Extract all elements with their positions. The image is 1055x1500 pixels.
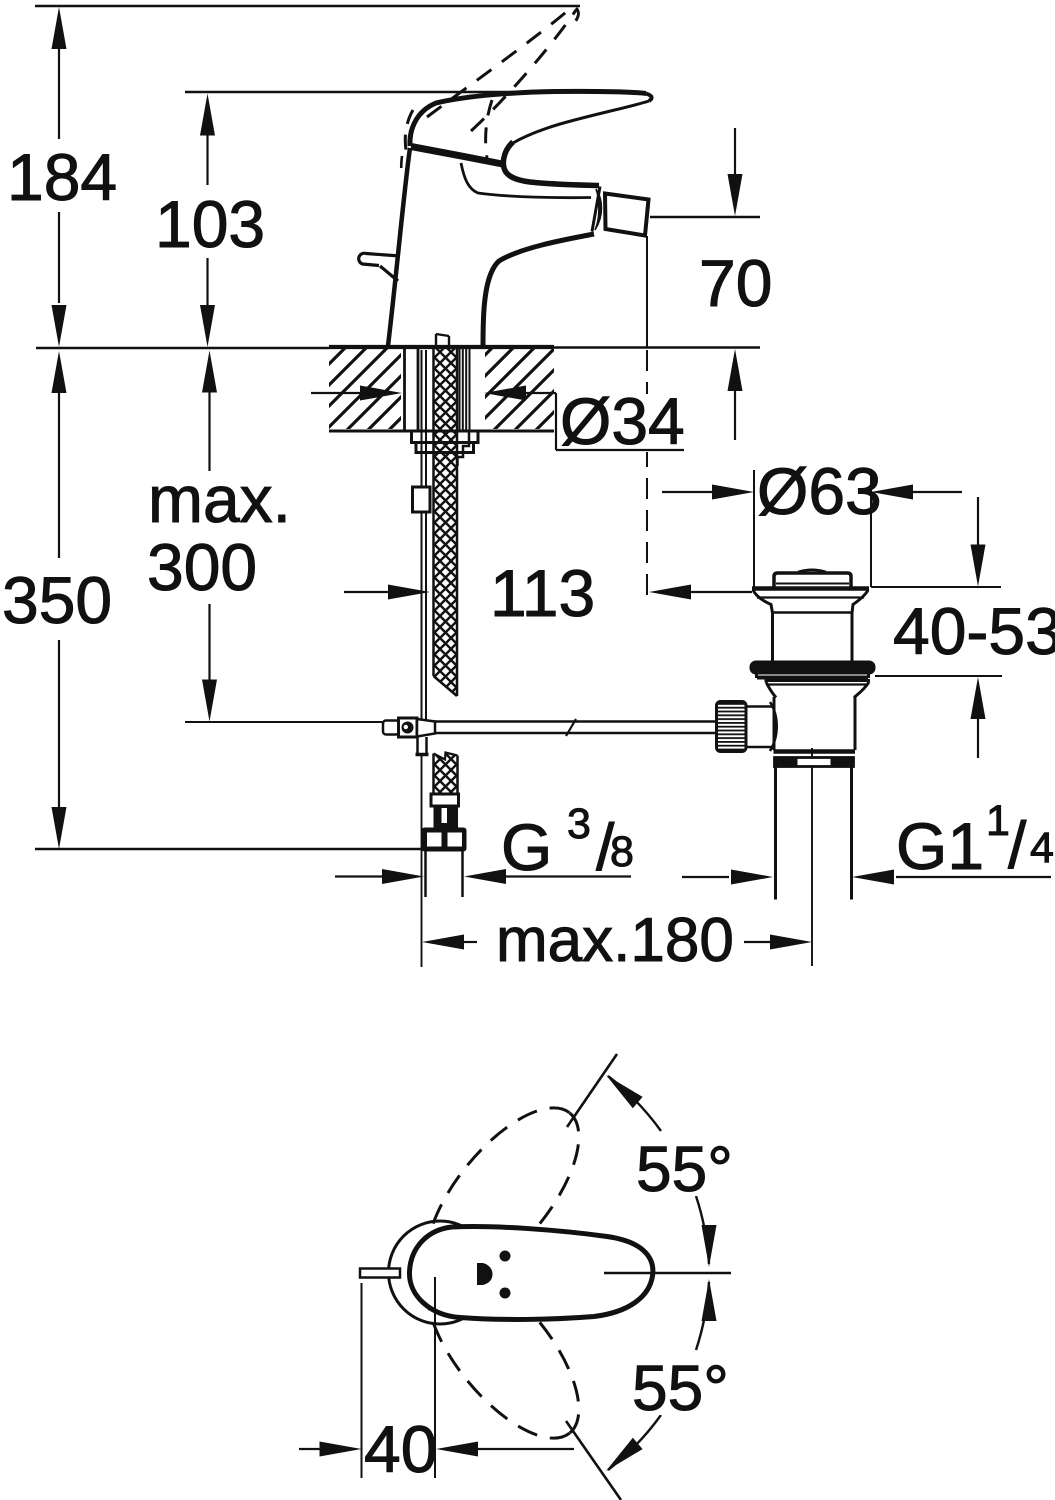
- drain body left wall curve: [770, 702, 777, 751]
- dimension max.300 line: [208, 392, 210, 681]
- dimension 40-53 reference lines: [871, 587, 1002, 676]
- shank locknut tier 2: [416, 443, 474, 453]
- dimension 40 arrows: [299, 1448, 574, 1450]
- radial line 55 upper: [567, 1054, 617, 1127]
- drain seal ring: [750, 661, 876, 675]
- dimension G3/8 arrows: [335, 875, 631, 877]
- rod stub below T-fitting: [416, 737, 429, 755]
- angular arc upper: [696, 1196, 709, 1264]
- svg-text:55°: 55°: [636, 1133, 733, 1205]
- deck hatching right block: [485, 349, 554, 429]
- dimension 40-53 lines: [977, 497, 979, 758]
- drain body sides: [773, 697, 776, 750]
- dimension 70 arrows: [728, 174, 743, 391]
- dimension max.180 extension line left: [421, 756, 423, 967]
- svg-text:1: 1: [986, 797, 1010, 845]
- raised handle (dashed) small arc: [400, 156, 403, 176]
- body left edge: [388, 148, 410, 346]
- svg-text:/: /: [1008, 808, 1027, 882]
- braided supply hose upper segment: [434, 349, 458, 697]
- svg-text:40: 40: [364, 1412, 437, 1486]
- horizontal pop-up rod to drain: [435, 722, 716, 734]
- body cap seam: [461, 163, 591, 198]
- drain adjuster knurled knob: [717, 702, 747, 752]
- svg-text:G1: G1: [896, 809, 984, 883]
- body front edge: [483, 234, 594, 347]
- shank stepped end: [458, 431, 470, 466]
- svg-text:G: G: [501, 810, 552, 884]
- handle logo mark: [477, 1263, 493, 1285]
- supply pipe below nut: [426, 852, 463, 898]
- base cap circle: [389, 1221, 492, 1324]
- dimension 350 arrows: [52, 351, 67, 849]
- pop-up rod (vertical): [422, 350, 427, 719]
- svg-text:Ø63: Ø63: [757, 454, 882, 528]
- svg-text:300: 300: [147, 530, 257, 604]
- drain flange inner lines: [757, 596, 864, 598]
- raised handle (dashed) upper edge: [427, 7, 572, 117]
- tailpiece collar: [775, 758, 854, 767]
- svg-text:113: 113: [490, 556, 595, 630]
- spout outlet crescent: [595, 189, 602, 230]
- T-fitting taper: [417, 719, 435, 737]
- drain flange top: [752, 586, 869, 591]
- pop-up rod T-fitting block: [399, 718, 418, 737]
- svg-text:max.180: max.180: [496, 906, 734, 975]
- drain body bottom: [774, 749, 856, 754]
- dimension 103 line: [206, 134, 208, 306]
- deck top line: [329, 345, 554, 349]
- drain centreline / max.180 extension right: [811, 748, 813, 966]
- reference line at rod end (max.300 bottom): [185, 721, 384, 723]
- dimension O34 label: [556, 384, 685, 458]
- dimension 103 arrows: [200, 94, 215, 348]
- svg-text:55°: 55°: [632, 1352, 729, 1424]
- dimension 40 extension lines: [361, 1283, 363, 1478]
- handle tip cap: [646, 94, 652, 102]
- drain plug knob top: [798, 570, 826, 572]
- raised handle (dashed) hook: [486, 100, 492, 158]
- svg-text:350: 350: [2, 563, 112, 637]
- radial line 55 lower: [566, 1421, 621, 1500]
- drain neck: [771, 613, 774, 661]
- raised handle (dashed) tip: [573, 8, 578, 24]
- dimension max.300 arrows: [202, 351, 217, 722]
- deck top reference extension to 70 dim: [554, 346, 760, 348]
- reference line 103 (handle top level): [185, 91, 548, 93]
- dimension 350 line: [58, 392, 60, 808]
- pop-up knob lever on body: [359, 253, 400, 281]
- shank tube lines in deck hole: [405, 349, 419, 431]
- svg-text:8: 8: [610, 828, 634, 876]
- dimension O34 arrows and leader: [311, 392, 556, 394]
- aerator: [605, 194, 649, 236]
- top reference line (raised handle height): [35, 5, 580, 8]
- dimension 184 arrows: [52, 7, 67, 347]
- svg-text:max.: max.: [148, 462, 291, 536]
- dimension 113 arrows: [344, 591, 752, 593]
- dimension 184 line: [58, 47, 60, 303]
- dimension G1 1/4 arrows: [682, 876, 1051, 878]
- rod break tick: [566, 719, 576, 736]
- handle inner hook: [503, 142, 599, 186]
- handle rotated +55 (dashed ellipse upper): [400, 1084, 606, 1307]
- spout outlet reference line (70 top): [650, 216, 760, 218]
- drain lower flange: [765, 679, 871, 682]
- hose end fitting (dark): [434, 805, 459, 828]
- spout centre projection line (solid above deck): [646, 236, 648, 347]
- label 55 upper: [630, 1133, 733, 1205]
- handle dots: [500, 1251, 511, 1262]
- adjuster neck: [746, 705, 772, 708]
- svg-text:40-53: 40-53: [893, 594, 1055, 668]
- dimension G1 1/4 label: [896, 797, 1054, 883]
- dimension 40-53 arrows: [971, 545, 986, 720]
- dimension G3/8 label: [501, 800, 634, 884]
- dimension O63 arrows: [662, 491, 962, 493]
- deck level reference line (left extension): [36, 347, 329, 349]
- rod connector sleeve: [413, 487, 431, 512]
- handle back and top edge: [410, 91, 646, 146]
- svg-text:70: 70: [699, 246, 772, 320]
- pop-up rod T-fitting left cylinder: [383, 721, 399, 735]
- svg-text:Ø34: Ø34: [560, 384, 685, 458]
- handle bottom edge (thin): [513, 101, 649, 143]
- label 55 lower: [627, 1352, 729, 1424]
- angular arc lower: [696, 1282, 709, 1350]
- baseline of 350 (supply hose end): [35, 848, 422, 850]
- dimension max.180 arrows: [464, 941, 772, 943]
- T-fitting screw head: [402, 722, 414, 734]
- handle top view outline: [409, 1227, 652, 1320]
- svg-text:3: 3: [567, 800, 591, 848]
- dimension O63 extension lines: [754, 469, 871, 587]
- svg-text:103: 103: [155, 187, 265, 261]
- spout centre projection line (dashed below deck): [646, 350, 648, 600]
- centreline right of handle: [604, 1272, 731, 1274]
- shank locknut tier 1: [412, 431, 479, 443]
- drain plug knob: [774, 573, 851, 587]
- dimension 70 lines: [734, 128, 736, 440]
- raised handle (dashed) lower edge: [471, 10, 576, 131]
- handle rotated -55 (dashed ellipse lower): [400, 1239, 606, 1462]
- drain flange sides: [753, 590, 773, 613]
- raised handle (dashed) back arc: [405, 110, 413, 150]
- braided hose lower segment: [434, 753, 458, 795]
- body base tab: [436, 334, 449, 347]
- deck bottom line: [329, 430, 554, 433]
- handle-body pivot band: [411, 147, 505, 165]
- spout outlet face: [592, 187, 600, 232]
- svg-text:184: 184: [7, 140, 117, 214]
- svg-text:4: 4: [1030, 824, 1054, 872]
- hose collar: [431, 794, 459, 806]
- G3/8 connection nut: [422, 828, 467, 852]
- drain tailpipe: [774, 767, 777, 900]
- temperature pin: [360, 1269, 400, 1278]
- deck hatching left block: [329, 349, 401, 429]
